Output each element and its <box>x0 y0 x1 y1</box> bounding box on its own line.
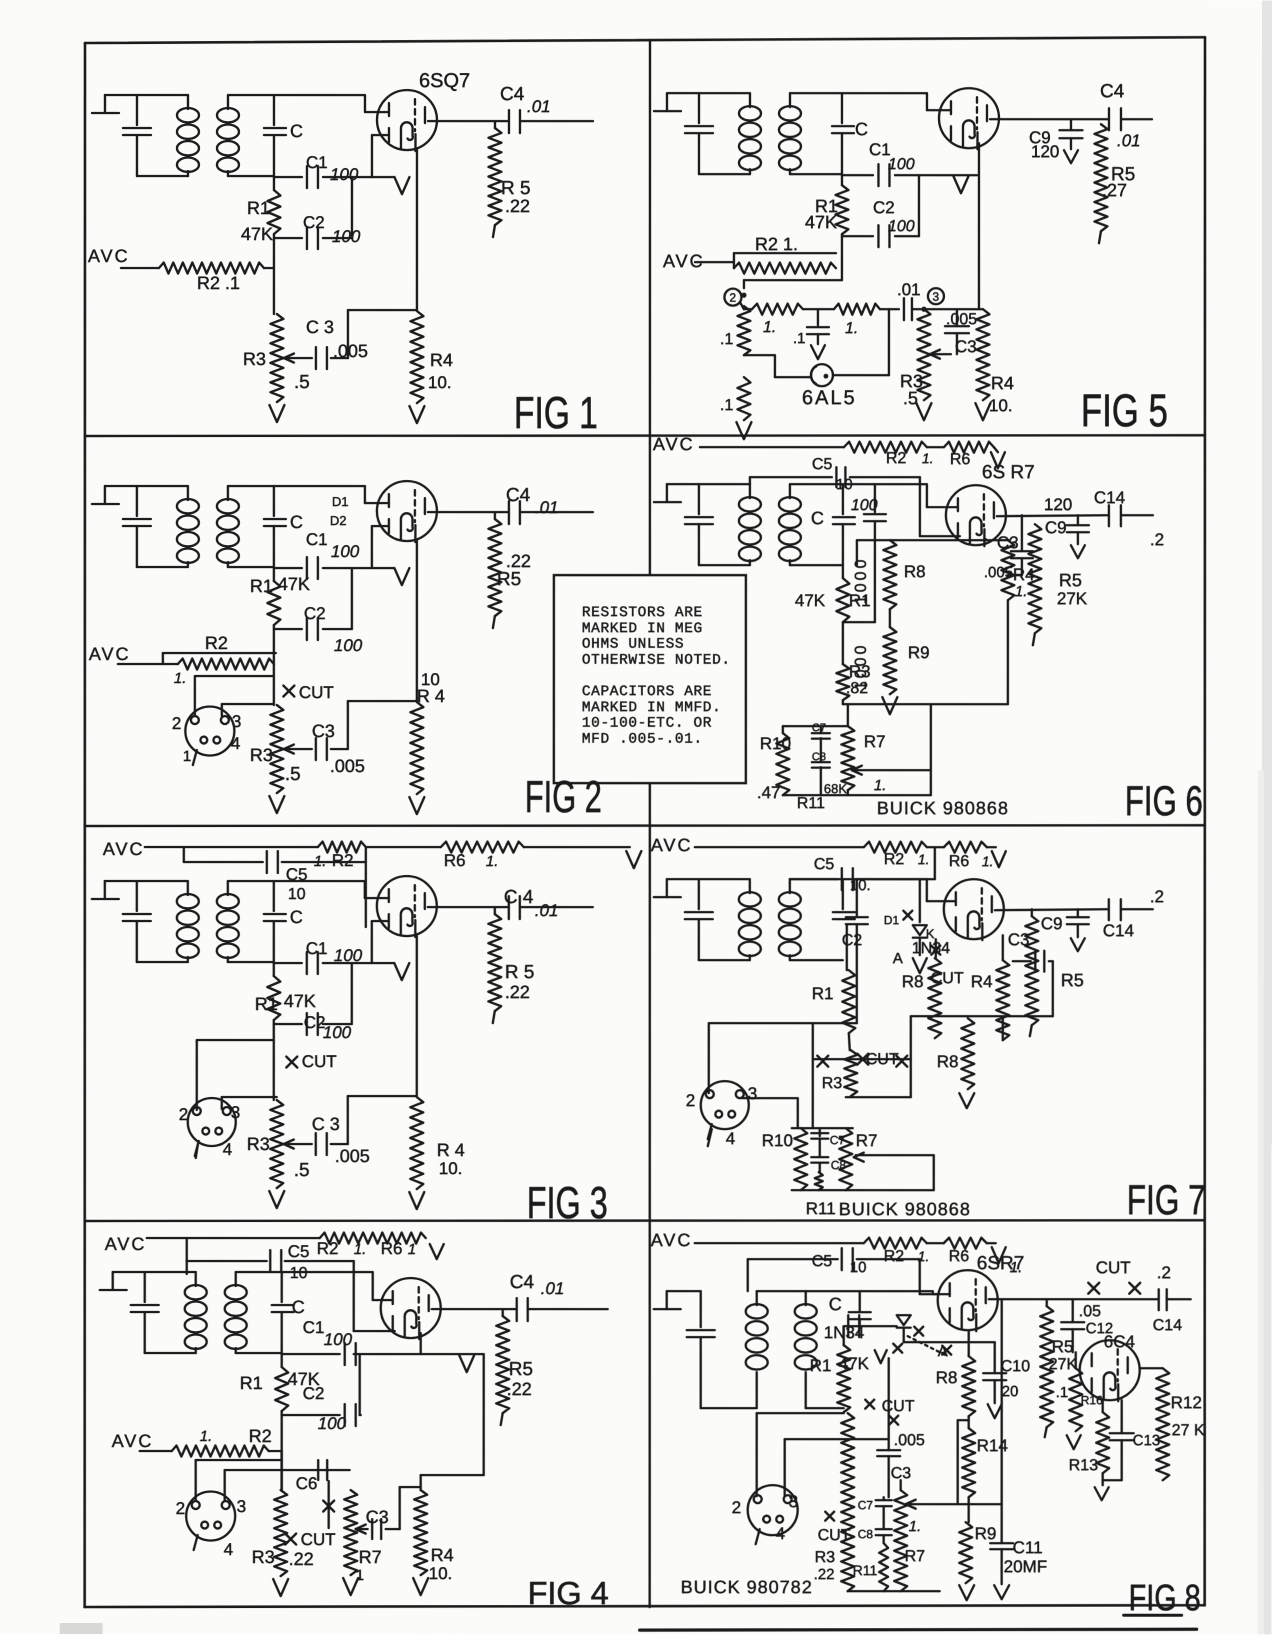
svg-text:R8: R8 <box>937 1052 959 1071</box>
svg-text:C4: C4 <box>1100 81 1125 102</box>
svg-text:2: 2 <box>686 1091 695 1110</box>
svg-text:R10: R10 <box>760 734 791 753</box>
svg-text:AVC: AVC <box>651 835 693 855</box>
svg-text:FIG 8: FIG 8 <box>1129 1577 1201 1618</box>
svg-text:R11: R11 <box>797 795 825 812</box>
svg-text:CUT: CUT <box>882 1398 915 1415</box>
svg-text:AVC: AVC <box>103 839 145 859</box>
svg-text:47K: 47K <box>795 591 826 610</box>
svg-text:R 5: R 5 <box>505 962 535 983</box>
svg-text:10: 10 <box>290 1265 308 1282</box>
svg-text:2: 2 <box>732 1498 741 1517</box>
svg-text:47K: 47K <box>241 224 273 244</box>
svg-text:AVC: AVC <box>653 434 695 454</box>
svg-text:10.: 10. <box>850 877 871 894</box>
svg-text:100: 100 <box>334 946 363 965</box>
svg-text:120: 120 <box>1044 495 1072 514</box>
svg-text:C7: C7 <box>830 1133 846 1147</box>
svg-text:R 4: R 4 <box>417 686 445 706</box>
svg-text:C4: C4 <box>510 1272 535 1293</box>
svg-text:R4: R4 <box>991 373 1014 393</box>
svg-text:D1: D1 <box>884 913 900 927</box>
svg-text:C4: C4 <box>500 84 525 105</box>
svg-text:FIG 2: FIG 2 <box>525 771 602 822</box>
svg-text:.47: .47 <box>757 783 781 802</box>
svg-text:.2: .2 <box>1150 887 1164 906</box>
svg-text:C2: C2 <box>304 604 326 623</box>
svg-text:.005: .005 <box>984 564 1013 581</box>
svg-text:C14: C14 <box>1094 488 1125 507</box>
svg-text:.005: .005 <box>335 1146 370 1166</box>
svg-text:R2: R2 <box>884 851 905 868</box>
svg-text:C11: C11 <box>1013 1538 1043 1557</box>
svg-text:R 4: R 4 <box>437 1140 465 1160</box>
svg-text:C1: C1 <box>303 1318 325 1337</box>
svg-text:R5: R5 <box>1059 570 1082 590</box>
svg-text:C8: C8 <box>858 1527 874 1541</box>
svg-text:120: 120 <box>1031 142 1059 161</box>
svg-text:C: C <box>855 119 868 139</box>
svg-text:R5: R5 <box>1061 970 1084 990</box>
svg-text:1.: 1. <box>922 450 934 466</box>
svg-text:C6: C6 <box>296 1474 318 1493</box>
svg-text:C8: C8 <box>812 751 826 763</box>
svg-text:100: 100 <box>851 497 878 514</box>
svg-text:3: 3 <box>748 1084 757 1103</box>
svg-text:20: 20 <box>1002 1383 1019 1400</box>
svg-text:.2: .2 <box>1150 530 1164 549</box>
svg-text:1.: 1. <box>874 777 887 794</box>
svg-text:1.: 1. <box>174 670 187 687</box>
svg-text:6AL5: 6AL5 <box>802 387 857 409</box>
svg-text:R4: R4 <box>430 350 453 370</box>
svg-text:68K: 68K <box>824 781 847 796</box>
svg-text:1.: 1. <box>918 851 930 867</box>
svg-text:.005: .005 <box>333 341 368 361</box>
svg-text:FIG 1: FIG 1 <box>514 387 598 438</box>
svg-text:1.: 1. <box>486 853 499 870</box>
svg-text:C: C <box>292 1297 305 1317</box>
svg-text:100: 100 <box>332 227 361 246</box>
svg-text:100: 100 <box>318 1414 347 1433</box>
svg-text:1000: 1000 <box>853 557 870 605</box>
svg-text:R3: R3 <box>252 1547 275 1567</box>
svg-text:R4: R4 <box>431 1545 454 1565</box>
svg-text:R5: R5 <box>1052 1337 1074 1356</box>
svg-text:1: 1 <box>356 1567 364 1584</box>
svg-text:OTHERWISE NOTED.: OTHERWISE NOTED. <box>582 653 731 669</box>
svg-text:A: A <box>938 1343 948 1360</box>
svg-text:D2: D2 <box>330 513 347 528</box>
svg-text:.22: .22 <box>505 196 530 216</box>
svg-text:R2: R2 <box>317 1239 339 1258</box>
svg-text:3: 3 <box>232 712 241 731</box>
svg-text:CUT: CUT <box>866 1051 899 1068</box>
svg-text:C5: C5 <box>288 1242 310 1261</box>
svg-text:.1: .1 <box>720 397 733 414</box>
svg-text:1.: 1. <box>314 853 327 870</box>
svg-text:R12: R12 <box>1171 1393 1202 1412</box>
svg-text:.01: .01 <box>897 280 921 299</box>
svg-text:R8: R8 <box>936 1368 958 1387</box>
svg-text:47K: 47K <box>284 991 316 1011</box>
svg-text:.1: .1 <box>1056 1384 1069 1401</box>
svg-text:AVC: AVC <box>89 644 131 664</box>
svg-text:C 3: C 3 <box>312 1114 340 1134</box>
svg-text:100: 100 <box>330 165 359 184</box>
svg-text:47K: 47K <box>839 1354 870 1373</box>
svg-text:4: 4 <box>776 1524 785 1543</box>
svg-text:R13: R13 <box>1069 1457 1098 1474</box>
svg-text:C1: C1 <box>306 153 328 172</box>
svg-text:AVC: AVC <box>112 1431 154 1451</box>
svg-text:.27: .27 <box>1102 180 1127 200</box>
svg-text:C3: C3 <box>312 721 335 741</box>
svg-text:R1: R1 <box>812 984 834 1003</box>
svg-text:1.: 1. <box>200 1428 213 1445</box>
svg-text:27K: 27K <box>1049 1356 1078 1373</box>
svg-text:R1: R1 <box>810 1356 832 1375</box>
svg-text:R8: R8 <box>902 972 924 991</box>
svg-text:R2: R2 <box>332 851 354 870</box>
svg-text:.005: .005 <box>946 311 977 328</box>
svg-text:K: K <box>926 926 935 941</box>
svg-text:R1: R1 <box>240 1373 263 1393</box>
svg-text:.01: .01 <box>541 1279 565 1298</box>
svg-text:100: 100 <box>888 156 915 173</box>
svg-text:CUT: CUT <box>299 683 334 702</box>
svg-text:47K: 47K <box>278 574 310 594</box>
svg-text:C2: C2 <box>303 213 325 232</box>
svg-text:C: C <box>290 907 303 927</box>
svg-text:R1: R1 <box>247 198 270 218</box>
svg-text:RESISTORS ARE: RESISTORS ARE <box>582 605 703 621</box>
svg-text:3: 3 <box>237 1497 246 1516</box>
svg-text:R11: R11 <box>806 1199 836 1218</box>
svg-text:2: 2 <box>729 291 736 305</box>
svg-text:R1: R1 <box>255 994 278 1014</box>
svg-text:R6: R6 <box>444 851 466 870</box>
svg-text:R9: R9 <box>975 1524 997 1543</box>
svg-text:10-100-ETC. OR: 10-100-ETC. OR <box>582 716 712 732</box>
svg-text:R5: R5 <box>497 569 521 590</box>
svg-text:2: 2 <box>176 1499 185 1518</box>
svg-text:C 3: C 3 <box>306 317 334 337</box>
svg-text:AVC: AVC <box>105 1234 147 1254</box>
svg-text:R7: R7 <box>864 732 886 751</box>
svg-text:R2: R2 <box>884 1248 905 1265</box>
svg-text:C5: C5 <box>812 1253 833 1270</box>
svg-text:4: 4 <box>726 1129 735 1148</box>
svg-text:R2: R2 <box>249 1426 272 1446</box>
svg-text:C2: C2 <box>842 932 863 949</box>
svg-text:BUICK 980868: BUICK 980868 <box>839 1199 971 1219</box>
svg-text:1.: 1. <box>1010 1259 1023 1276</box>
svg-text:R3: R3 <box>815 1549 836 1566</box>
svg-text:.2: .2 <box>1157 1263 1171 1282</box>
svg-text:C5: C5 <box>814 856 835 873</box>
svg-text:.05: .05 <box>1079 1303 1101 1320</box>
svg-text:BUICK 980868: BUICK 980868 <box>877 798 1009 818</box>
svg-text:100: 100 <box>323 1023 352 1042</box>
svg-text:10: 10 <box>836 476 853 493</box>
svg-text:.5: .5 <box>285 764 301 785</box>
svg-text:10.: 10. <box>428 373 452 392</box>
svg-text:.1: .1 <box>793 330 806 347</box>
svg-text:1.: 1. <box>1015 583 1028 600</box>
svg-text:10.: 10. <box>439 1159 463 1178</box>
svg-text:10: 10 <box>850 1259 867 1276</box>
svg-text:FIG 7: FIG 7 <box>1127 1176 1206 1223</box>
svg-text:2: 2 <box>179 1105 188 1124</box>
svg-text:R2 .1: R2 .1 <box>197 273 240 293</box>
svg-text:27 K: 27 K <box>1172 1422 1205 1439</box>
svg-text:10: 10 <box>288 886 306 903</box>
svg-text:6SQ7: 6SQ7 <box>419 70 470 92</box>
svg-text:.22: .22 <box>814 1566 835 1583</box>
svg-text:C9: C9 <box>1045 518 1067 537</box>
svg-text:CUT: CUT <box>301 1530 336 1549</box>
svg-text:R3: R3 <box>243 349 266 369</box>
svg-text:BUICK 980782: BUICK 980782 <box>681 1577 813 1597</box>
svg-text:6S R7: 6S R7 <box>982 462 1035 483</box>
svg-text:C7: C7 <box>858 1498 874 1512</box>
svg-text:MARKED IN MMFD.: MARKED IN MMFD. <box>582 700 722 716</box>
svg-text:.1: .1 <box>720 331 733 348</box>
svg-text:R5: R5 <box>509 1359 533 1380</box>
svg-text:C14: C14 <box>1153 1317 1182 1334</box>
svg-text:4: 4 <box>231 734 240 753</box>
svg-text:3: 3 <box>789 1492 798 1511</box>
svg-text:1N34: 1N34 <box>912 940 950 957</box>
svg-text:.005: .005 <box>330 756 365 776</box>
svg-text:4: 4 <box>224 1540 233 1559</box>
svg-text:100: 100 <box>334 636 363 655</box>
svg-text:.01: .01 <box>535 498 559 517</box>
svg-text:FIG 6: FIG 6 <box>1125 777 1203 824</box>
svg-text:C5: C5 <box>812 456 833 473</box>
svg-text:C8: C8 <box>831 1158 847 1172</box>
svg-text:1: 1 <box>183 748 191 765</box>
svg-text:1.: 1. <box>763 319 776 336</box>
svg-text:2: 2 <box>172 714 181 733</box>
svg-text:47K: 47K <box>805 212 837 232</box>
svg-text:100: 100 <box>888 218 915 235</box>
svg-text:C10: C10 <box>1001 1358 1030 1375</box>
svg-text:R3: R3 <box>247 1134 270 1154</box>
svg-text:R14: R14 <box>977 1436 1008 1455</box>
svg-text:R10: R10 <box>762 1131 793 1150</box>
svg-text:R6: R6 <box>950 451 971 468</box>
svg-text:A: A <box>893 950 903 967</box>
svg-text:D1: D1 <box>332 494 349 509</box>
svg-text:27K: 27K <box>1057 589 1088 608</box>
svg-text:R7: R7 <box>359 1547 382 1567</box>
svg-text:C3: C3 <box>997 533 1019 552</box>
svg-text:.01: .01 <box>535 901 559 920</box>
svg-text:C: C <box>811 508 824 528</box>
svg-text:100: 100 <box>331 542 360 561</box>
svg-text:FIG 4: FIG 4 <box>528 1575 609 1611</box>
svg-text:OHMS UNLESS: OHMS UNLESS <box>582 637 684 653</box>
svg-text:R11: R11 <box>853 1562 878 1578</box>
svg-text:R3: R3 <box>250 745 273 765</box>
svg-text:R2 1.: R2 1. <box>755 234 798 254</box>
svg-text:1.: 1. <box>909 1518 922 1535</box>
svg-text:MARKED IN MEG: MARKED IN MEG <box>582 621 703 637</box>
svg-text:1000: 1000 <box>853 643 870 691</box>
svg-text:.5: .5 <box>903 388 918 408</box>
svg-text:C14: C14 <box>1103 921 1134 940</box>
svg-text:4: 4 <box>223 1140 232 1159</box>
svg-text:1: 1 <box>408 1241 416 1258</box>
svg-text:.22: .22 <box>289 1549 314 1569</box>
svg-text:R3: R3 <box>822 1075 843 1092</box>
svg-text:C2: C2 <box>303 1384 325 1403</box>
svg-text:C1: C1 <box>306 939 328 958</box>
svg-text:C3: C3 <box>366 1507 389 1527</box>
svg-text:CUT: CUT <box>818 1527 851 1544</box>
svg-text:C9: C9 <box>1041 914 1063 933</box>
svg-text:1.: 1. <box>982 853 994 869</box>
svg-text:AVC: AVC <box>651 1230 693 1250</box>
svg-text:C: C <box>829 1294 842 1314</box>
svg-text:CAPACITORS ARE: CAPACITORS ARE <box>582 684 712 700</box>
svg-text:1.: 1. <box>845 320 858 337</box>
svg-text:MFD .005-.01.: MFD .005-.01. <box>582 732 703 748</box>
svg-text:.01: .01 <box>527 97 551 116</box>
svg-text:C4: C4 <box>506 485 531 506</box>
svg-text:.5: .5 <box>294 1160 310 1181</box>
svg-text:C: C <box>290 512 303 532</box>
svg-text:R6: R6 <box>949 1248 970 1265</box>
svg-text:R7: R7 <box>905 1548 926 1565</box>
svg-text:C2: C2 <box>873 198 895 217</box>
svg-text:.005: .005 <box>894 1432 925 1449</box>
svg-text:10.: 10. <box>989 396 1013 415</box>
svg-text:CUT: CUT <box>302 1052 337 1071</box>
svg-text:10.: 10. <box>429 1564 453 1583</box>
svg-text:R8: R8 <box>904 562 926 581</box>
svg-text:R7: R7 <box>856 1131 878 1150</box>
svg-text:6C4: 6C4 <box>1104 1332 1135 1351</box>
svg-text:FIG 3: FIG 3 <box>527 1177 608 1228</box>
svg-text:.5: .5 <box>294 372 310 393</box>
svg-text:.22: .22 <box>507 1379 532 1399</box>
svg-text:.22: .22 <box>505 982 530 1002</box>
svg-text:R6: R6 <box>949 853 970 870</box>
svg-text:CUT: CUT <box>1096 1258 1131 1277</box>
svg-text:20MF: 20MF <box>1004 1557 1047 1576</box>
svg-text:3: 3 <box>231 1103 240 1122</box>
svg-text:FIG 5: FIG 5 <box>1081 384 1168 436</box>
svg-text:C: C <box>290 121 303 141</box>
svg-text:AVC: AVC <box>88 246 130 266</box>
svg-text:R9: R9 <box>908 643 930 662</box>
svg-text:3: 3 <box>932 290 939 304</box>
svg-text:C1: C1 <box>306 530 328 549</box>
svg-text:R2: R2 <box>205 633 228 653</box>
svg-text:C7: C7 <box>812 722 826 734</box>
svg-text:1.: 1. <box>354 1241 367 1258</box>
svg-text:C3: C3 <box>955 337 977 356</box>
svg-text:R2: R2 <box>886 450 907 467</box>
svg-text:100: 100 <box>324 1330 353 1349</box>
svg-text:R6: R6 <box>381 1239 403 1258</box>
svg-text:R4: R4 <box>971 972 993 991</box>
svg-text:C 4: C 4 <box>504 887 534 908</box>
svg-text:C5: C5 <box>286 865 308 884</box>
svg-text:.01: .01 <box>1117 131 1141 150</box>
svg-text:R1: R1 <box>250 576 273 596</box>
